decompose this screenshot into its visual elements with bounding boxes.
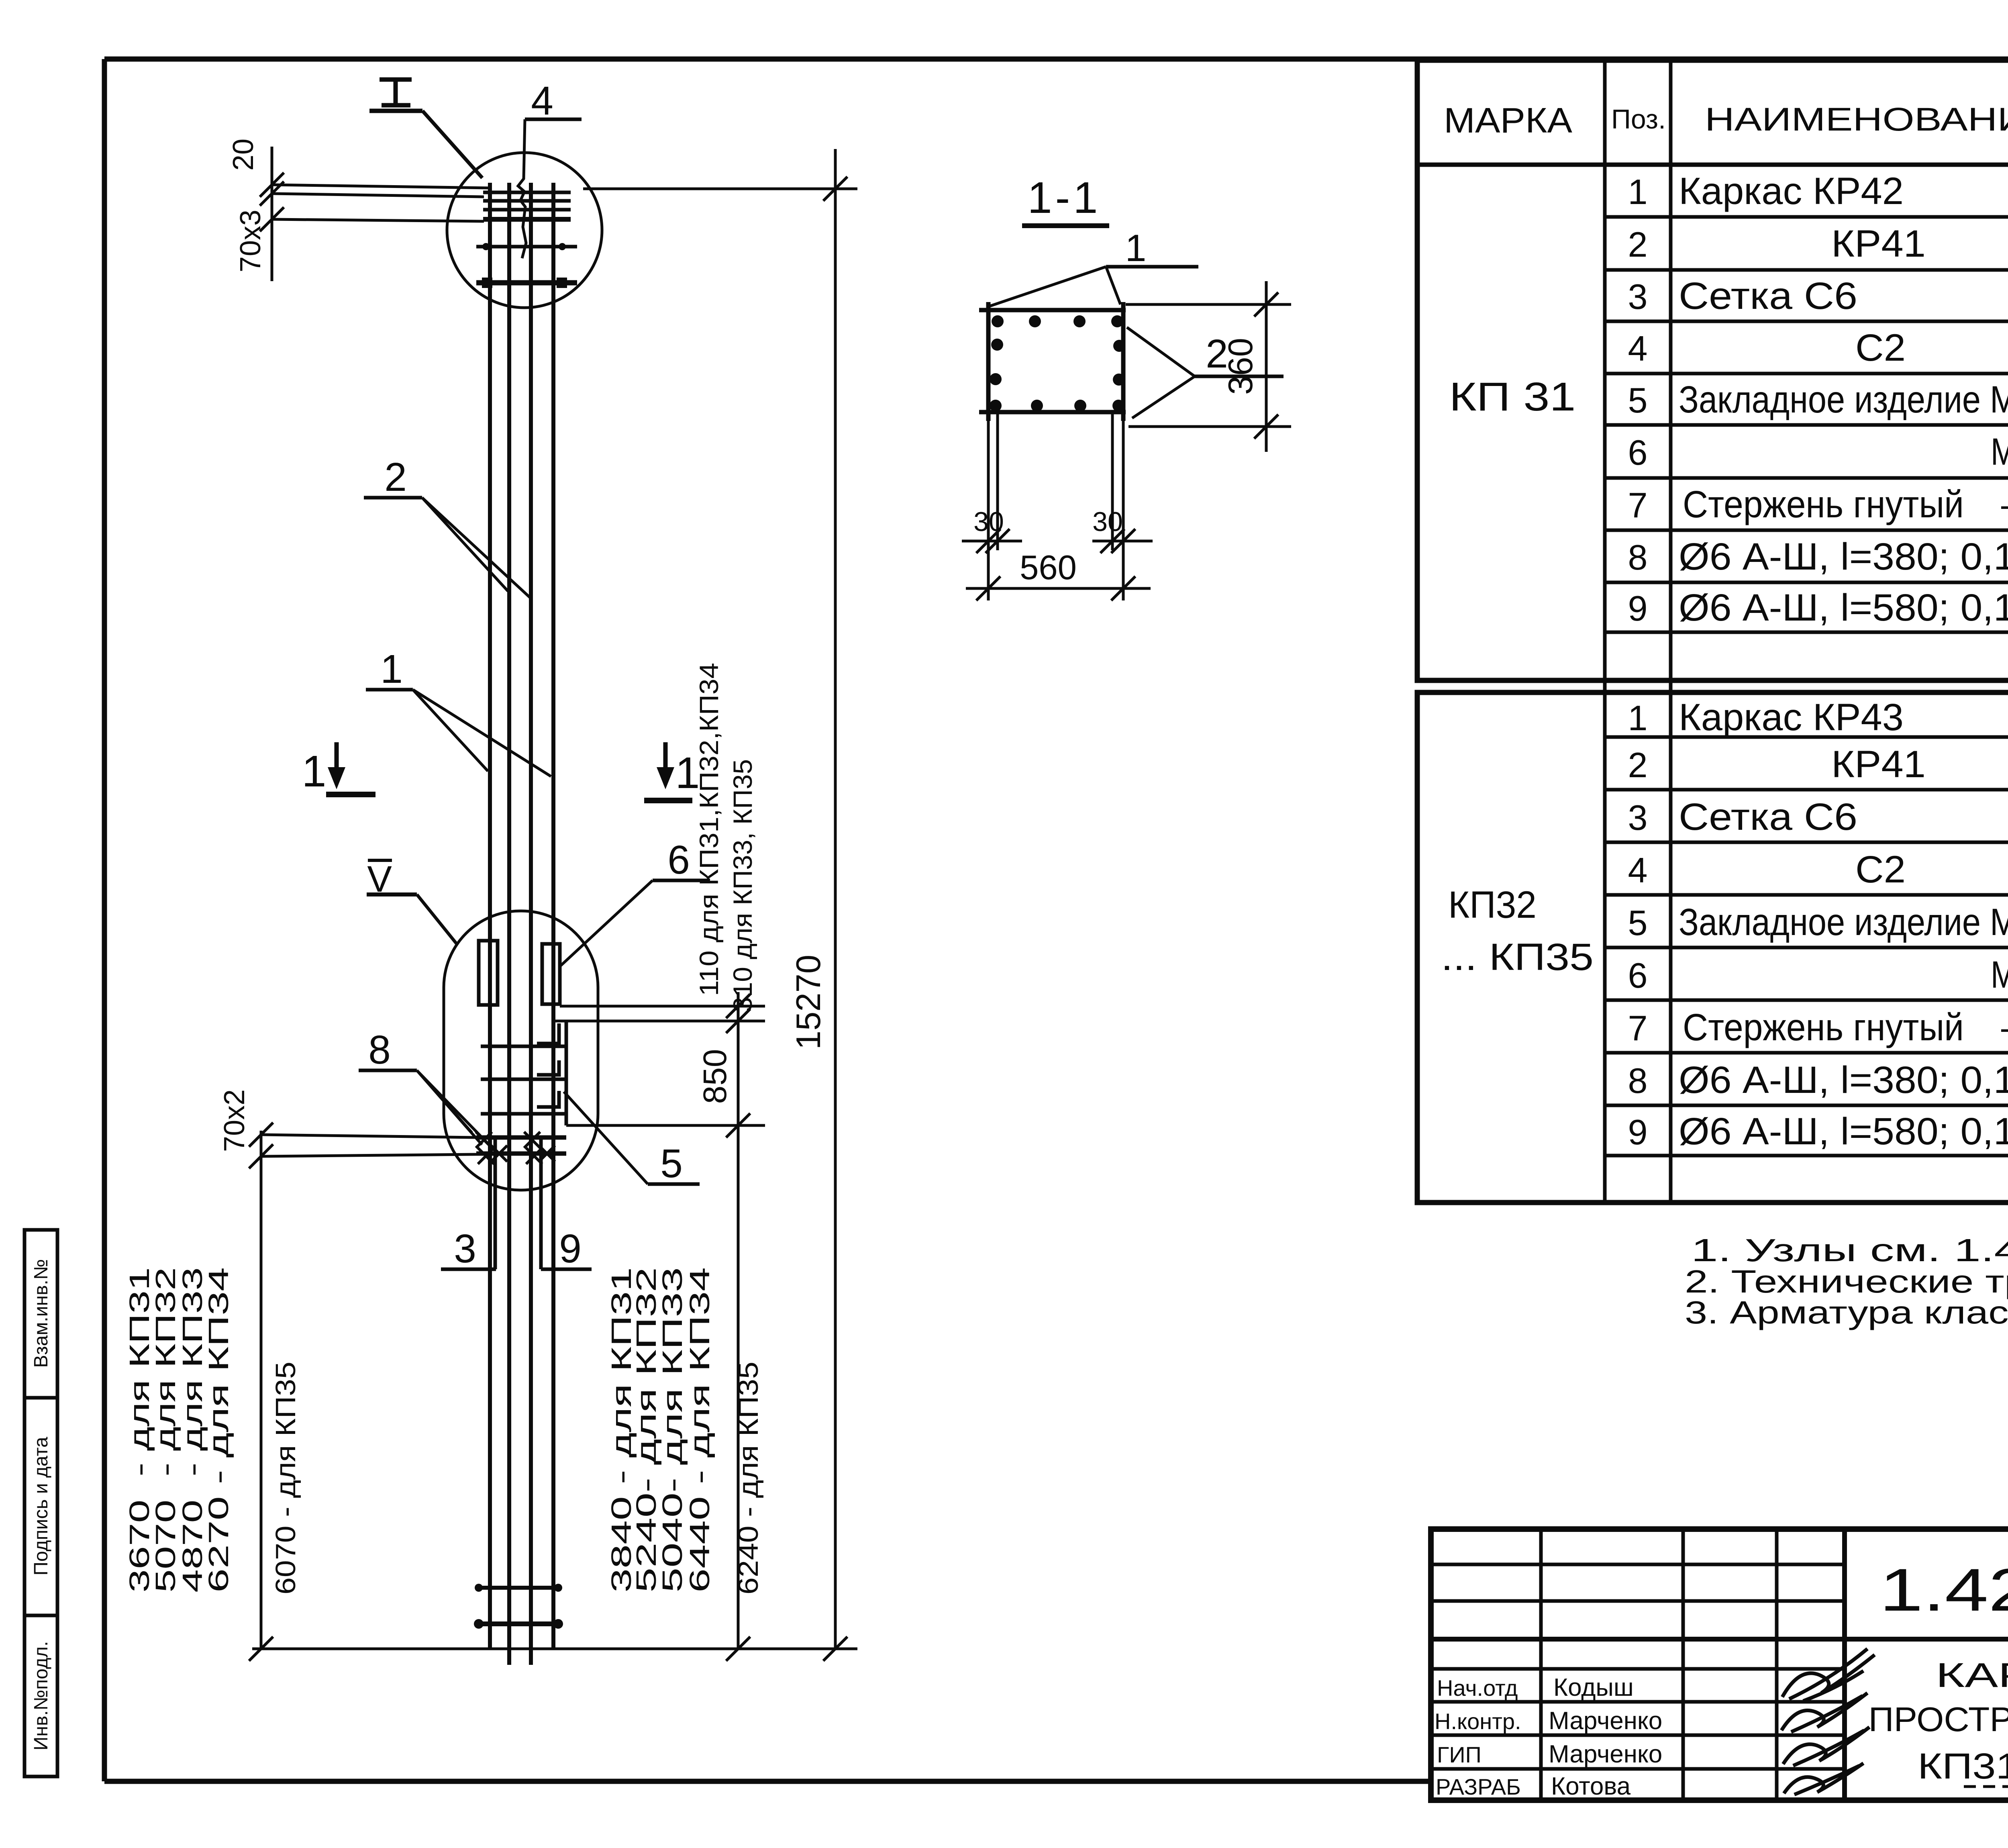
svg-text:560: 560	[1020, 549, 1077, 587]
svg-text:Нач.отд: Нач.отд	[1437, 1675, 1518, 1701]
svg-text:20: 20	[227, 139, 259, 171]
svg-text:Кодыш: Кодыш	[1553, 1674, 1634, 1701]
SPEC-TABLE1 rows text	[1628, 170, 2008, 629]
svg-text:5040- для КП33: 5040- для КП33	[657, 1267, 688, 1593]
SPEC-TABLE2 rows text	[1628, 696, 2008, 1153]
TITLE-BLOCK role labels	[1435, 1675, 1521, 1799]
LEFT-MARGIN boxes	[24, 1230, 57, 1777]
SECTION-1-1 dim 360	[1126, 281, 1291, 452]
TOP-LEFT dimension 20 and 70x3	[260, 147, 491, 281]
svg-text:6240 - для КП35: 6240 - для КП35	[733, 1362, 764, 1595]
svg-text:Ø6 А-Ш, l=380; 0,1 кг: Ø6 А-Ш, l=380; 0,1 кг	[1679, 535, 2008, 578]
WELD x-marks	[476, 1132, 555, 1164]
svg-text:9: 9	[559, 1226, 582, 1271]
svg-text:... КП35: ... КП35	[1441, 936, 1594, 978]
SECTION-1-1 label 2 leader	[1127, 327, 1284, 418]
svg-text:5: 5	[1628, 903, 1648, 943]
svg-text:Закладное изделие МН7: Закладное изделие МН7	[1679, 901, 2008, 943]
svg-text:2: 2	[1628, 745, 1648, 785]
svg-text:1.420.1-32.2-2-09: 1.420.1-32.2-2-09	[1879, 1556, 2008, 1623]
svg-text:6: 6	[1628, 433, 1648, 472]
svg-text:9: 9	[1628, 588, 1648, 628]
svg-text:Ø6 А-Ш, l=380; 0,1 кг: Ø6 А-Ш, l=380; 0,1 кг	[1679, 1059, 2008, 1101]
svg-text:МАРКА: МАРКА	[1444, 100, 1572, 140]
svg-text:С2: С2	[1855, 848, 1906, 891]
svg-text:15270: 15270	[790, 955, 828, 1050]
svg-text:6: 6	[1628, 956, 1648, 995]
LABEL-6 leader	[559, 880, 710, 967]
svg-text:Марченко: Марченко	[1549, 1707, 1662, 1735]
LABEL-9 leader	[541, 1268, 592, 1271]
svg-text:8: 8	[1628, 1061, 1648, 1101]
svg-text:5: 5	[1628, 380, 1648, 420]
svg-text:V: V	[367, 859, 392, 900]
SECTION-MARK 1 left	[326, 742, 375, 794]
SECTION-1-1 dims 30	[962, 412, 1153, 600]
svg-text:Каркас КР43: Каркас КР43	[1679, 696, 1904, 739]
svg-text:6070 - для КП35: 6070 - для КП35	[270, 1362, 301, 1595]
LEFT-MARGIN labels	[31, 1259, 52, 1751]
SPEC-TABLE grid	[1417, 60, 2008, 1203]
JOINT bars pos3 pos9	[495, 1137, 541, 1269]
svg-text:8: 8	[1628, 537, 1648, 577]
TOP stirrups	[476, 192, 577, 283]
COLUMN longitudinal bars	[490, 183, 553, 1665]
BOTTOM dimension line	[249, 1637, 857, 1661]
svg-text:3: 3	[454, 1226, 476, 1271]
LABEL-3 leader	[441, 1268, 496, 1271]
svg-text:3: 3	[1628, 277, 1648, 317]
svg-text:Котова: Котова	[1551, 1772, 1631, 1800]
svg-text:МН32: МН32	[1991, 954, 2008, 996]
svg-text:30: 30	[973, 506, 1004, 537]
svg-text:Инв.№подл.: Инв.№подл.	[31, 1641, 52, 1750]
TITLE-BLOCK grid	[1431, 1529, 2008, 1800]
SECTION-1-1 outline	[979, 302, 1126, 421]
svg-text:310 для КП33, КП35: 310 для КП33, КП35	[728, 759, 757, 1012]
svg-text:Взам.инв.№: Взам.инв.№	[31, 1259, 52, 1368]
LABEL-8 leaders	[359, 1070, 499, 1155]
svg-text:КП32: КП32	[1448, 884, 1537, 926]
svg-text:2. Технические требования см.: 2. Технические требования см. 1.420.1-32…	[1685, 1264, 2008, 1299]
TOP stirrup end dots	[482, 243, 567, 288]
svg-text:70х2: 70х2	[218, 1089, 251, 1152]
svg-text:850: 850	[697, 1049, 733, 1104]
svg-text:Сетка С6: Сетка С6	[1679, 275, 1857, 317]
LABEL-4 leader squiggle	[518, 119, 582, 258]
svg-text:– 01: – 01	[2001, 1006, 2008, 1049]
svg-text:Стержень гнутый: Стержень гнутый	[1683, 1006, 1964, 1049]
svg-text:Н.контр.: Н.контр.	[1435, 1709, 1521, 1734]
svg-text:Ø6 А-Ш, l=580; 0,1 кг: Ø6 А-Ш, l=580; 0,1 кг	[1679, 586, 2008, 629]
LABEL-V flag	[367, 860, 457, 944]
EMBED-PLATE left	[479, 941, 498, 1005]
svg-text:ПРОСТРАНСТВЕННЫЙ: ПРОСТРАНСТВЕННЫЙ	[1869, 1700, 2008, 1739]
LEFT dim 70x2 lines	[249, 1123, 476, 1649]
svg-text:КП 31: КП 31	[1449, 374, 1576, 419]
svg-text:Поз.: Поз.	[1611, 104, 1666, 135]
SPEC-TABLE1 marka mass	[1449, 374, 2008, 419]
svg-text:3: 3	[1628, 798, 1648, 837]
svg-text:1-1: 1-1	[1028, 173, 1101, 223]
svg-text:Ø6 А-Ш, l=580; 0,1 кг: Ø6 А-Ш, l=580; 0,1 кг	[1679, 1110, 2008, 1153]
svg-text:МН32: МН32	[1991, 431, 2008, 473]
BOTTOM stirrups	[477, 1588, 560, 1624]
svg-text:5: 5	[660, 1141, 683, 1186]
RIGHT rotated dim texts group2	[606, 1267, 764, 1595]
LABEL-I flag	[369, 80, 482, 178]
svg-text:6: 6	[667, 837, 690, 882]
svg-text:6270 - для КП34: 6270 - для КП34	[203, 1267, 234, 1593]
SPEC-TABLE gap connectors	[1603, 680, 1607, 692]
RIGHT extension lines 110/850	[554, 992, 765, 1649]
SECTION-MARK 1 right	[644, 742, 692, 800]
DETAIL-CIRCLE-I	[447, 153, 602, 308]
svg-text:110 для КП31,КП32,КП34: 110 для КП31,КП32,КП34	[694, 663, 724, 996]
svg-text:6440 - для КП34: 6440 - для КП34	[684, 1267, 715, 1593]
svg-text:4: 4	[531, 78, 553, 123]
svg-text:ГИП: ГИП	[1437, 1742, 1482, 1767]
BENT-BAR hooks	[537, 1021, 566, 1125]
SPEC-TABLE2 marka mass	[1441, 884, 2008, 978]
LABEL-5 leader	[564, 1092, 700, 1184]
DIM 15270 line	[583, 149, 857, 1649]
TITLE-BLOCK signatures	[1781, 1649, 1875, 1795]
SECTION-1-1 label 1 leader	[990, 267, 1198, 306]
EMBED-PLATE right	[542, 944, 560, 1004]
svg-text:7: 7	[1628, 485, 1648, 525]
svg-text:Сетка С6: Сетка С6	[1679, 796, 1857, 838]
svg-text:4: 4	[1628, 329, 1648, 368]
svg-text:1: 1	[380, 647, 403, 692]
TITLE-BLOCK names	[1549, 1674, 1662, 1800]
svg-text:Закладное изделие МН7: Закладное изделие МН7	[1679, 378, 2008, 421]
svg-text:КП31 ..., КП35: КП31 ..., КП35	[1918, 1746, 2008, 1787]
MIDDLE stirrups	[476, 1046, 566, 1154]
svg-text:1: 1	[1628, 172, 1648, 212]
LABEL-2 with leaders	[364, 498, 530, 598]
svg-text:Стержень гнутый: Стержень гнутый	[1683, 483, 1964, 526]
NOTES text	[1685, 1232, 2008, 1330]
svg-text:8: 8	[368, 1027, 391, 1072]
svg-text:1: 1	[1628, 698, 1648, 738]
svg-text:НАИМЕНОВАНИЕ: НАИМЕНОВАНИЕ	[1705, 101, 2008, 138]
LEFT rotated dim texts group1	[124, 1267, 301, 1595]
SECTION-1-1 rebar dots	[990, 315, 1125, 412]
LABEL-1 with leaders	[366, 690, 551, 776]
svg-text:9: 9	[1628, 1112, 1648, 1152]
svg-text:С2: С2	[1855, 327, 1906, 369]
svg-text:70х3: 70х3	[235, 210, 267, 272]
svg-text:4: 4	[1628, 850, 1648, 890]
svg-text:Каркас КР42: Каркас КР42	[1679, 170, 1904, 212]
svg-text:1: 1	[302, 747, 326, 796]
BOTTOM stirrup dots	[474, 1584, 563, 1629]
svg-text:7: 7	[1628, 1008, 1648, 1048]
svg-text:КАРКАС: КАРКАС	[1936, 1656, 2008, 1695]
svg-text:360: 360	[1222, 338, 1260, 395]
svg-text:Подпись и дата: Подпись и дата	[31, 1437, 52, 1576]
svg-text:1: 1	[1125, 227, 1147, 270]
svg-text:КР41: КР41	[1831, 223, 1926, 265]
svg-text:3. Арматура классов А-Ш,А-I по: 3. Арматура классов А-Ш,А-I по ГОСТ 5781…	[1685, 1295, 2008, 1330]
svg-text:КР41: КР41	[1831, 743, 1926, 786]
svg-text:2: 2	[1628, 225, 1648, 264]
svg-text:30: 30	[1092, 506, 1123, 537]
svg-text:1. Узлы см. 1.420.1-32.2-2У: 1. Узлы см. 1.420.1-32.2-2У	[1691, 1232, 2008, 1268]
svg-text:РАЗРАБ: РАЗРАБ	[1436, 1774, 1521, 1799]
TITLE-BLOCK drawing title	[1869, 1656, 2008, 1787]
svg-text:– 01: – 01	[2001, 483, 2008, 526]
svg-text:Марченко: Марченко	[1549, 1740, 1662, 1768]
svg-text:2: 2	[384, 455, 407, 500]
SPEC-TABLE header text	[1444, 76, 2008, 165]
DETAIL-ELLIPSE-V	[444, 911, 598, 1190]
